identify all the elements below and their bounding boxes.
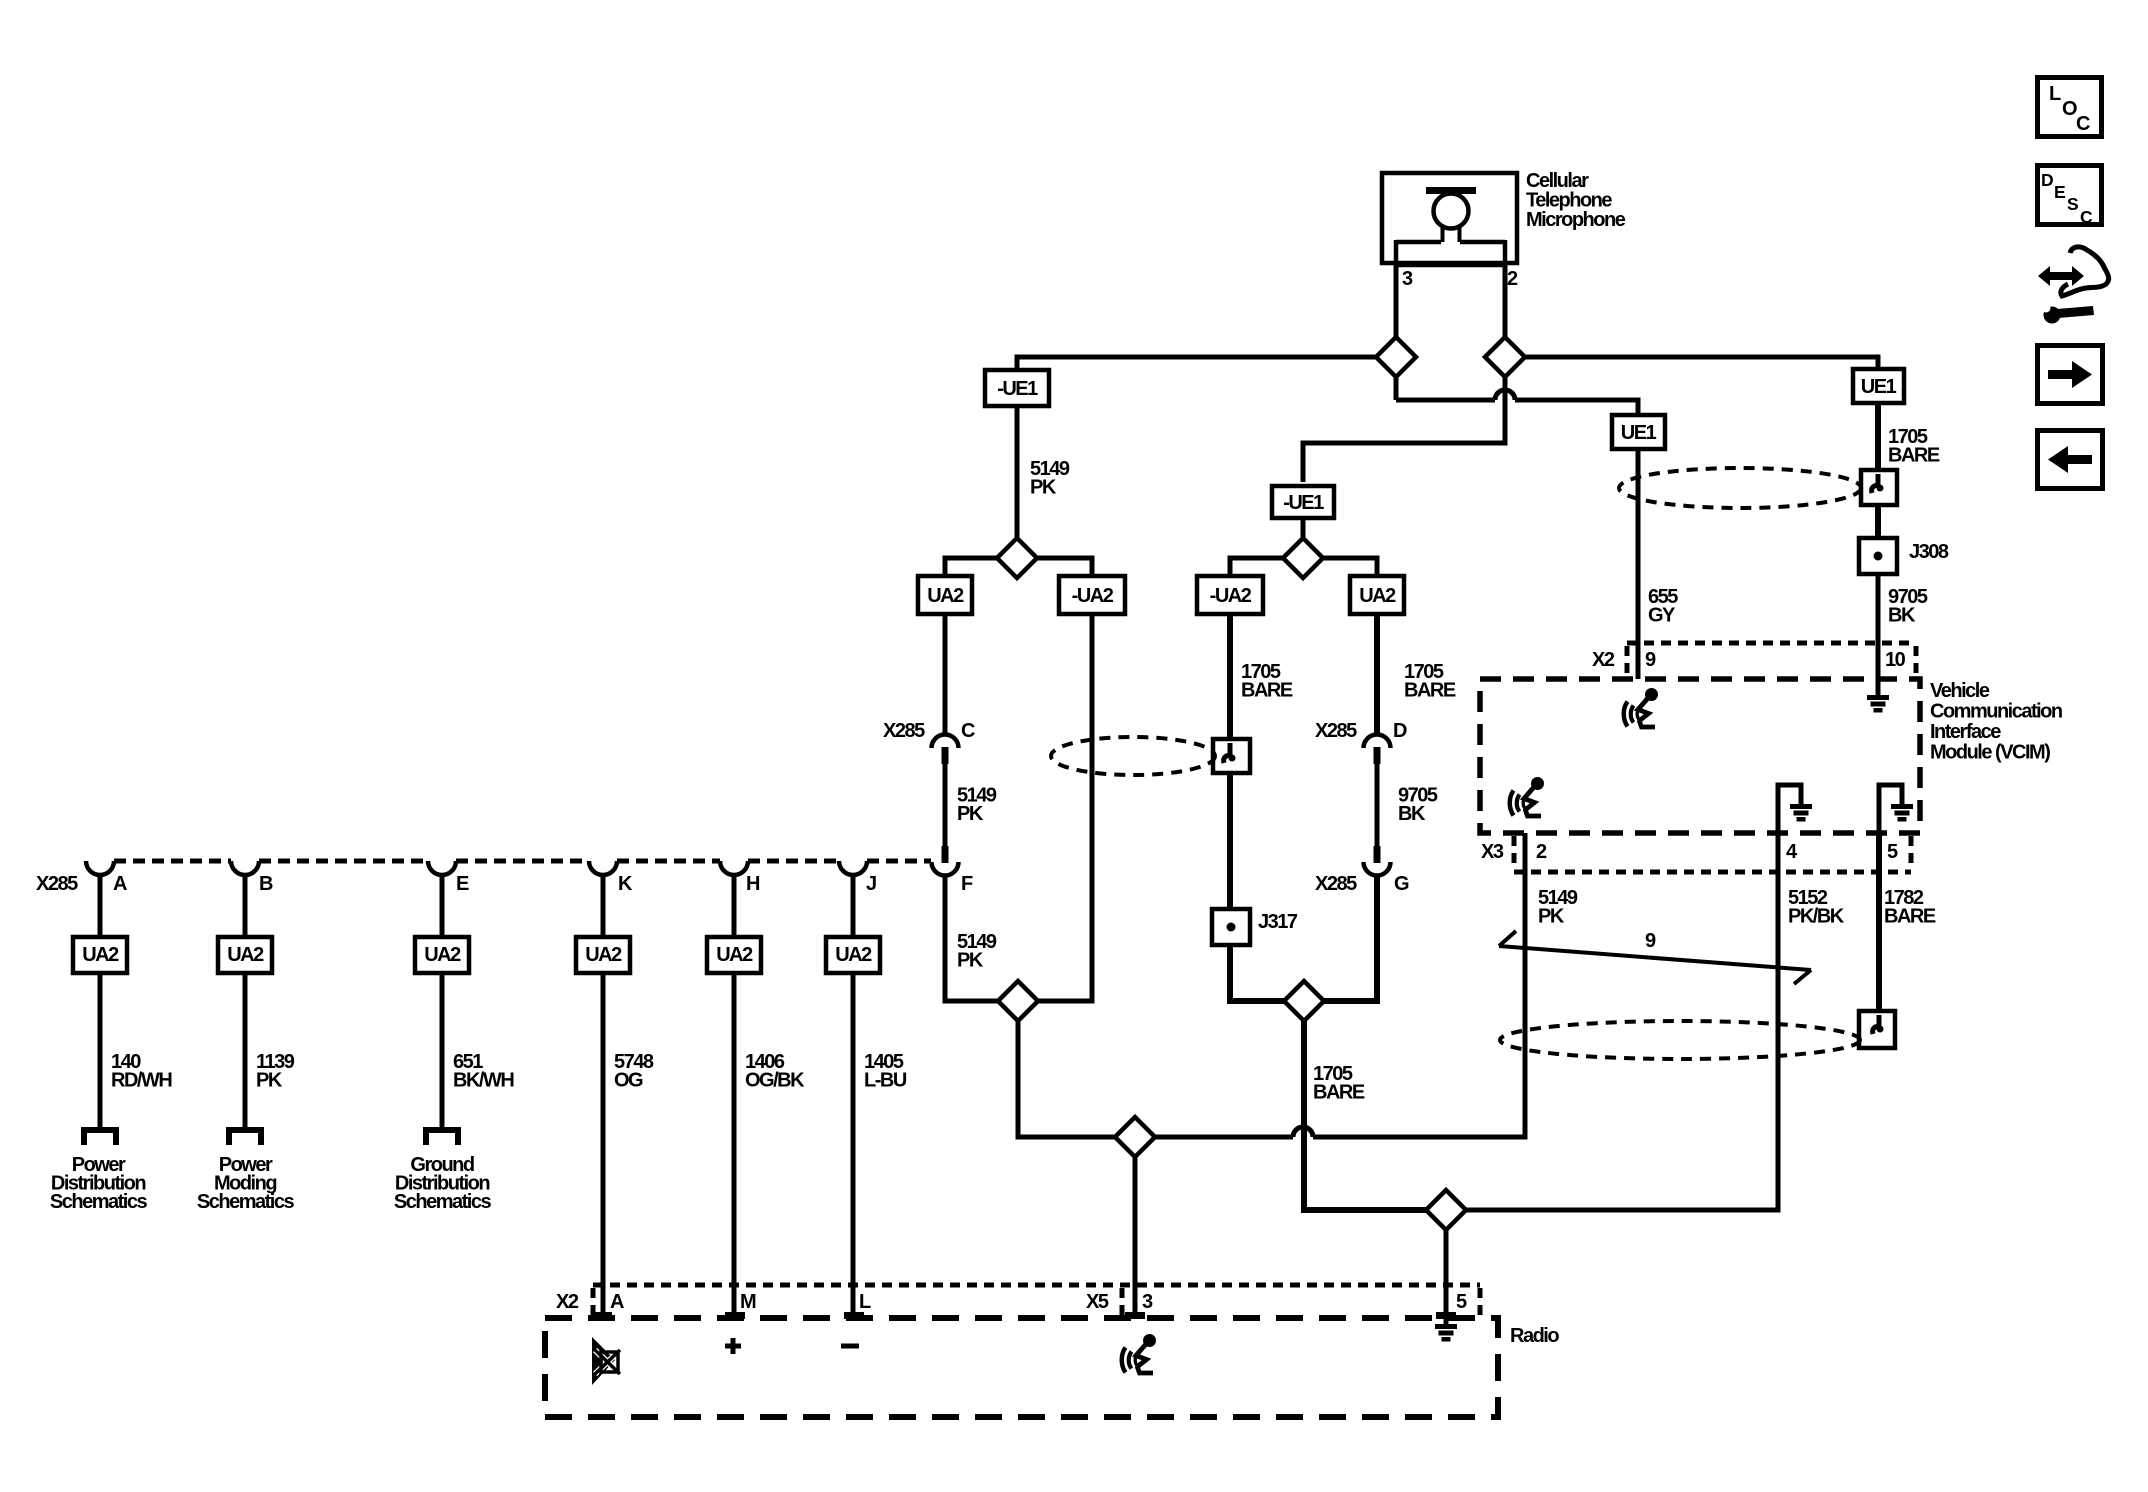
svg-text:UA2: UA2: [227, 944, 264, 966]
junction diamond (mic pin3): [1376, 337, 1416, 377]
label 5149 PK: [1030, 458, 1070, 499]
radio module dashed box: [545, 1318, 1498, 1417]
svg-text:J317: J317: [1258, 911, 1298, 933]
wire 1705 BARE to J317: [1227, 773, 1233, 909]
pin entry feet: [592, 1312, 1456, 1319]
svg-text:K: K: [618, 873, 633, 895]
wire 5152 to ground net: [1466, 785, 1778, 1210]
wire X285 H to UA2: [732, 873, 737, 937]
svg-text:2: 2: [1507, 268, 1518, 290]
svg-text:UA2: UA2: [835, 944, 872, 966]
label 1705 BARE: [1241, 661, 1293, 702]
svg-text:Schematics: Schematics: [50, 1191, 148, 1213]
connector X285 pin B: [231, 861, 259, 875]
svg-text:OG/BK: OG/BK: [745, 1070, 805, 1092]
svg-text:L-BU: L-BU: [864, 1070, 907, 1092]
svg-text:X2: X2: [1592, 649, 1615, 671]
wire J317 to splice diamond: [1230, 945, 1284, 1001]
tag -UE1 (center): [1272, 486, 1334, 518]
wire 9705 BK (J308 to X2 pin10): [1876, 574, 1881, 695]
label 655 GY: [1648, 586, 1678, 627]
wire -UE1 to splice diamond: [1015, 406, 1020, 539]
tag UA2 (b): [1350, 576, 1404, 614]
svg-text:X2: X2: [556, 1291, 579, 1313]
ground (X3 pin4): [1790, 804, 1812, 822]
svg-text:-UE1: -UE1: [1283, 492, 1324, 514]
connector X285 pin C: [932, 735, 959, 765]
svg-text:Schematics: Schematics: [394, 1191, 492, 1213]
shield ellipse (top pair): [1619, 468, 1861, 508]
wire -UA2a down to splice: [1037, 614, 1092, 1001]
label Vehicle Communication Interface Module (VCIM): [1930, 680, 2062, 764]
label 1782 BARE (X3-5): [1884, 887, 1936, 928]
svg-text:O: O: [2062, 98, 2077, 120]
tag -UA2 (a): [1059, 576, 1125, 614]
connector X285 row dotted line: [114, 859, 931, 864]
splice J308: [1859, 538, 1897, 574]
svg-text:X285: X285: [36, 873, 78, 895]
svg-text:X5: X5: [1086, 1291, 1109, 1313]
shield drain terminal (top): [1861, 470, 1897, 505]
label 140 RD/WH: [111, 1051, 172, 1092]
svg-text:H: H: [746, 873, 760, 895]
shield ellipse (middle pair): [1051, 737, 1215, 775]
connector X2 row (VCIM): [1627, 643, 1916, 678]
svg-text:J308: J308: [1909, 541, 1949, 563]
handsfree icon (X2 pin9): [1624, 688, 1658, 727]
wire 1782 BARE (X3 pin5 down): [1876, 833, 1882, 1013]
wire branch to UA2: [945, 558, 998, 576]
svg-text:UE1: UE1: [1621, 422, 1657, 444]
svg-text:BK: BK: [1888, 605, 1916, 627]
svg-text:-UA2: -UA2: [1210, 585, 1252, 607]
tag UA2 (a): [918, 576, 972, 614]
svg-text:OG: OG: [614, 1070, 643, 1092]
svg-text:UA2: UA2: [82, 944, 119, 966]
label 1139 PK: [256, 1051, 295, 1092]
label 5149 PK: [957, 785, 997, 826]
note Ground Distribution Schematics: [394, 1154, 492, 1213]
label 5152 PK/BK (X3-4): [1788, 887, 1845, 928]
svg-text:D: D: [2041, 170, 2054, 190]
svg-text:BK: BK: [1398, 803, 1426, 825]
connector X285 pin K: [589, 861, 617, 875]
svg-text:G: G: [1394, 873, 1409, 895]
svg-text:UE1: UE1: [1861, 376, 1897, 398]
ground (X3 pin5): [1891, 804, 1913, 822]
label 1705 BARE: [1404, 661, 1456, 702]
svg-text:PK: PK: [957, 803, 984, 825]
shield drain terminal (bottom): [1859, 1011, 1895, 1048]
svg-text:L: L: [859, 1291, 871, 1313]
wire X285 K to UA2: [601, 873, 606, 937]
wire to radio X5 pin 3: [1133, 1157, 1138, 1318]
junction diamond (UA2 split right): [1283, 538, 1323, 578]
svg-text:A: A: [610, 1291, 624, 1313]
internal ground hook (X3 pin5): [1879, 785, 1902, 833]
label 9705 BK: [1398, 785, 1438, 826]
connector X285 pin J: [839, 861, 867, 875]
svg-text:PK: PK: [256, 1070, 283, 1092]
wire UA2a down to X285 C: [943, 614, 948, 734]
ground (radio pin 5): [1435, 1324, 1457, 1342]
svg-text:BARE: BARE: [1888, 445, 1940, 467]
svg-text:PK/BK: PK/BK: [1788, 906, 1845, 928]
svg-text:-UA2: -UA2: [1072, 585, 1114, 607]
svg-text:X3: X3: [1481, 841, 1504, 863]
wire 1705 BARE splice down: [1304, 1021, 1426, 1210]
wire X285 A to UA2: [98, 873, 103, 937]
wire radio net to VCIM X3 pin2 (hop at 1303): [1155, 833, 1525, 1137]
tag -UE1 (left): [985, 370, 1049, 406]
wire 1406 OG/BK: [732, 973, 737, 1318]
svg-text:C: C: [2076, 113, 2090, 135]
tag UA2 (H): [707, 937, 761, 973]
svg-text:C: C: [2080, 207, 2093, 227]
wire G to splice diamond: [1323, 874, 1377, 1001]
icon diagnostic (arrows and wrench): [2038, 247, 2109, 324]
svg-text:2: 2: [1536, 841, 1547, 863]
connector X285 pin F: [932, 846, 959, 876]
icon DESC button: [2038, 166, 2102, 228]
label 651 BK/WH: [453, 1051, 514, 1092]
connector X285 pin G: [1364, 846, 1391, 876]
plus marking: [725, 1338, 741, 1354]
junction diamond (mic pin2): [1485, 337, 1525, 377]
wire X285 J to UA2: [851, 873, 856, 937]
minus marking: [841, 1344, 859, 1349]
wire 5149 splice down to radio net: [1018, 1021, 1115, 1137]
svg-text:Microphone: Microphone: [1526, 209, 1626, 231]
svg-text:UA2: UA2: [424, 944, 461, 966]
tag UA2 (K): [576, 937, 630, 973]
svg-text:Module (VCIM): Module (VCIM): [1930, 742, 2050, 764]
off-page reference bracket: [423, 1130, 461, 1145]
label 1405 L-BU: [864, 1051, 907, 1092]
wire 9705 BK (D to G): [1375, 764, 1380, 847]
svg-text:3: 3: [1142, 1291, 1153, 1313]
VCIM module dashed box: [1480, 679, 1920, 833]
icon next arrow button: [2038, 346, 2103, 404]
svg-text:BARE: BARE: [1884, 906, 1936, 928]
svg-text:BARE: BARE: [1404, 680, 1456, 702]
connector X285 pin H: [720, 861, 748, 875]
wire branch to UA2 b: [1324, 558, 1377, 576]
wire 1405 L-BU: [851, 973, 856, 1318]
junction diamond (1705 splice): [1284, 981, 1324, 1021]
wire mic pin3 down: [1394, 265, 1399, 338]
wire 1705 BARE (-UA2 b down): [1227, 614, 1233, 741]
svg-text:Schematics: Schematics: [197, 1191, 295, 1213]
svg-text:X285: X285: [1315, 873, 1357, 895]
tag UA2 (J): [826, 937, 880, 973]
svg-text:9: 9: [1645, 649, 1656, 671]
svg-text:E: E: [2054, 182, 2066, 202]
svg-text:BARE: BARE: [1241, 680, 1293, 702]
svg-text:UA2: UA2: [716, 944, 753, 966]
label 1705 BARE: [1313, 1063, 1365, 1104]
svg-text:X285: X285: [883, 720, 925, 742]
internal ground hook (X3 pin4): [1778, 785, 1801, 833]
wire 651 BK/WH: [440, 973, 445, 1129]
svg-text:UA2: UA2: [927, 585, 964, 607]
tag UA2 (A): [73, 937, 127, 973]
svg-text:PK: PK: [957, 950, 984, 972]
svg-text:F: F: [961, 873, 973, 895]
wire 1705 BARE (UE1 down): [1875, 403, 1881, 472]
junction diamond (UA2 split left): [997, 538, 1037, 578]
wire to radio pin 5: [1444, 1230, 1449, 1324]
svg-text:A: A: [113, 873, 127, 895]
junction diamond (5149 splice): [998, 981, 1038, 1021]
svg-text:PK: PK: [1030, 477, 1057, 499]
radio connector row: [593, 1285, 1480, 1316]
svg-text:BK/WH: BK/WH: [453, 1070, 514, 1092]
junction diamond (radio X5-3 net): [1115, 1117, 1155, 1157]
wire 1139 PK: [243, 973, 248, 1129]
connector X3 row (VCIM): [1514, 836, 1911, 872]
svg-text:5: 5: [1456, 1291, 1467, 1313]
wire 5748 OG: [601, 973, 606, 1318]
wire X285 E to UA2: [440, 873, 445, 937]
svg-text:UA2: UA2: [1359, 585, 1396, 607]
svg-text:B: B: [259, 873, 273, 895]
svg-text:E: E: [456, 873, 469, 895]
svg-text:X285: X285: [1315, 720, 1357, 742]
svg-text:BARE: BARE: [1313, 1082, 1365, 1104]
tag -UA2 (b): [1197, 576, 1263, 614]
connector X285 pin E: [428, 861, 456, 875]
wire 5149 PK (C to F): [943, 764, 948, 847]
tag UE1 (left): [1612, 415, 1665, 449]
twisted pair arrow (9 twists): [1499, 931, 1811, 984]
handsfree icon (X3 pin2): [1510, 777, 1544, 816]
tag UA2 (E): [415, 937, 469, 973]
label 5149 PK: [957, 931, 997, 972]
svg-text:M: M: [740, 1291, 756, 1313]
wire X285 B to UA2: [243, 873, 248, 937]
connector X285 pin A: [86, 861, 114, 875]
svg-text:3: 3: [1402, 268, 1413, 290]
svg-text:D: D: [1393, 720, 1407, 742]
svg-text:10: 10: [1885, 649, 1906, 671]
svg-text:PK: PK: [1538, 906, 1565, 928]
tag UE1 (right): [1853, 369, 1904, 403]
wire -UE1 center to splice diamond: [1301, 518, 1306, 539]
wire 655 GY: [1636, 449, 1641, 679]
connector X285 pin D: [1364, 735, 1391, 765]
label Cellular Telephone Microphone: [1526, 170, 1626, 231]
off-page reference bracket: [81, 1130, 119, 1145]
wire mic pin2 down: [1503, 265, 1508, 338]
svg-text:L: L: [2049, 83, 2061, 105]
label 1406 OG/BK: [745, 1051, 805, 1092]
svg-text:Vehicle: Vehicle: [1930, 680, 1990, 702]
svg-text:9: 9: [1645, 930, 1656, 952]
splice J317: [1212, 909, 1250, 945]
svg-text:C: C: [961, 720, 975, 742]
wire branch to -UA2: [1038, 558, 1092, 576]
icon LOC button: [2038, 78, 2102, 137]
label 9705 BK: [1888, 586, 1928, 627]
wire branch to -UA2 b: [1230, 558, 1284, 576]
wire left to -UE1: [1017, 357, 1377, 371]
svg-text:Radio: Radio: [1510, 1325, 1559, 1347]
wire 5149 PK (F to splice): [945, 874, 999, 1001]
wire pin2 net to -UE1 b: [1303, 376, 1505, 482]
label 1705 BARE: [1888, 426, 1940, 467]
svg-text:J: J: [866, 873, 876, 895]
tag UA2 (B): [218, 937, 272, 973]
junction diamond (ground net): [1426, 1190, 1466, 1230]
wire right to UE1: [1524, 357, 1878, 370]
shield drain terminal (middle): [1213, 739, 1250, 773]
ground (X2 pin10): [1867, 695, 1889, 713]
svg-text:GY: GY: [1648, 605, 1676, 627]
svg-text:Communication: Communication: [1930, 701, 2062, 723]
off-page reference bracket: [226, 1130, 264, 1145]
svg-text:RD/WH: RD/WH: [111, 1070, 172, 1092]
handsfree icon (radio X5-3): [1122, 1334, 1156, 1373]
note Power Distribution Schematics: [50, 1154, 148, 1213]
svg-text:Interface: Interface: [1930, 721, 2001, 743]
svg-text:S: S: [2067, 194, 2079, 214]
note Power Moding Schematics: [197, 1154, 295, 1213]
cellular telephone microphone: [1382, 173, 1517, 265]
svg-text:UA2: UA2: [585, 944, 622, 966]
wire pin3 net to UE1 left (hop at 1505): [1396, 376, 1638, 415]
label 5149 PK (X3-2): [1538, 887, 1578, 928]
svg-text:-UE1: -UE1: [997, 378, 1038, 400]
speaker mute icon: [592, 1337, 620, 1385]
wire 1705 BARE (UA2 b down): [1374, 614, 1380, 734]
icon back arrow button: [2038, 431, 2103, 489]
label 5748 OG: [614, 1051, 654, 1092]
svg-text:5: 5: [1887, 841, 1898, 863]
wire to J308: [1875, 505, 1881, 538]
wire 140 RD/WH: [98, 973, 103, 1129]
shield ellipse (bottom pair): [1500, 1021, 1860, 1059]
